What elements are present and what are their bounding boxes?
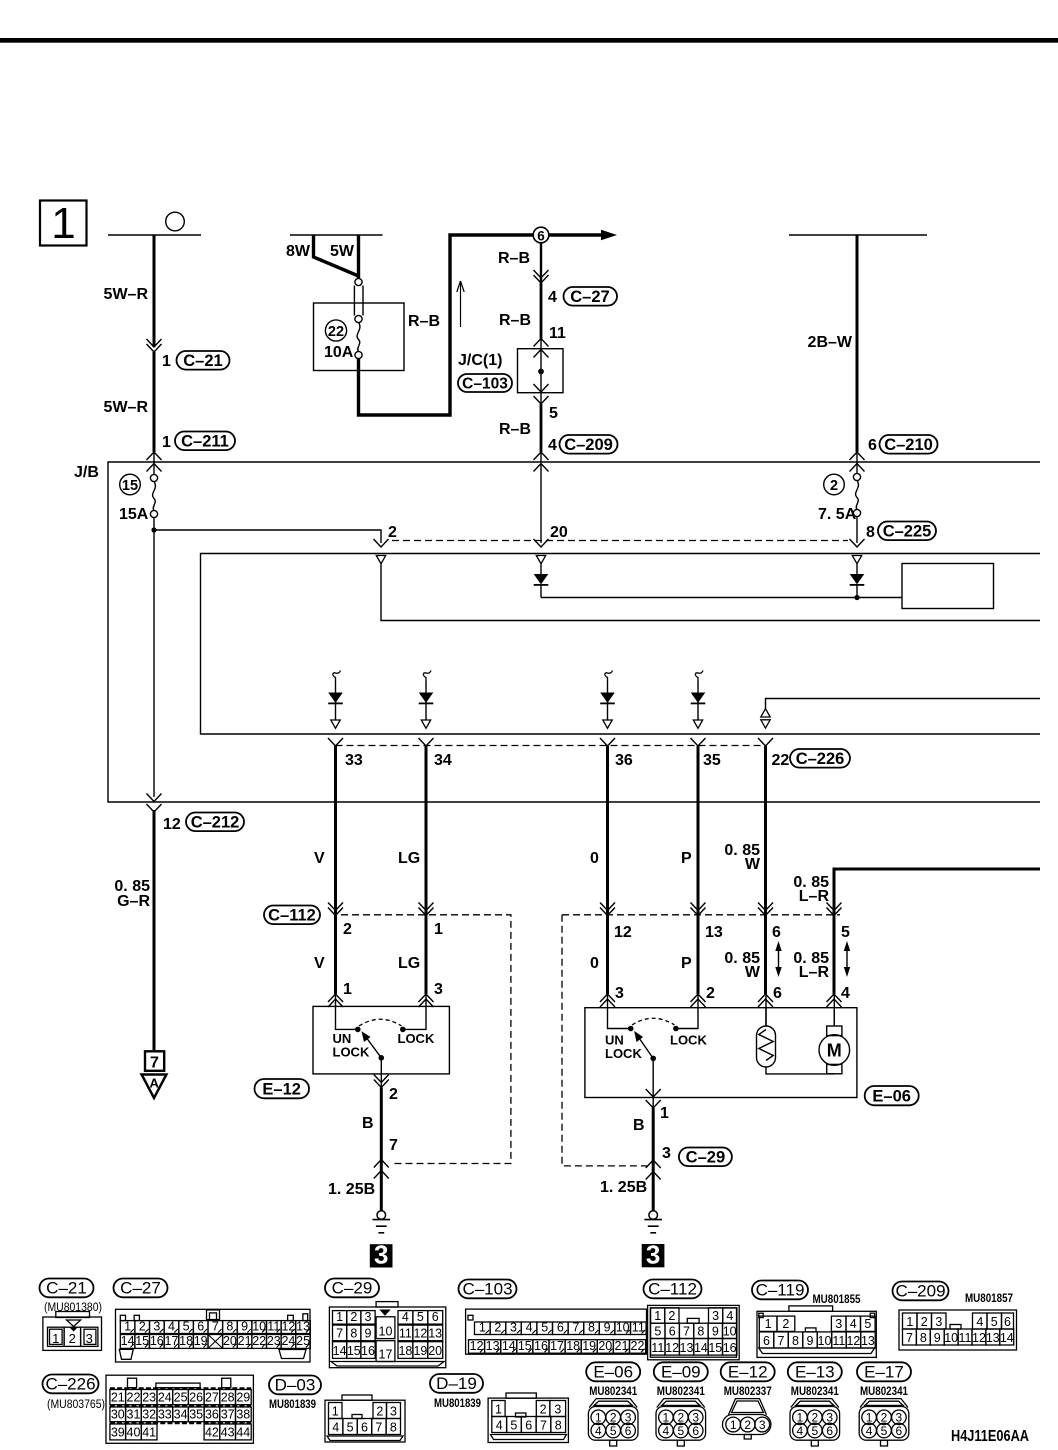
value label B xyxy=(362,1115,374,1132)
svg-text:6: 6 xyxy=(669,1324,676,1338)
pin 33 xyxy=(345,752,363,769)
svg-text:39: 39 xyxy=(111,1426,125,1440)
label UN LOCK xyxy=(333,1031,370,1060)
svg-text:12: 12 xyxy=(972,1331,986,1345)
node pin35 crossing xyxy=(691,738,706,746)
svg-text:4: 4 xyxy=(850,1317,857,1331)
wire 8W stub xyxy=(314,235,359,276)
pin 11 J/C xyxy=(549,325,566,342)
svg-text:C–21: C–21 xyxy=(46,1279,87,1298)
svg-text:6: 6 xyxy=(525,1418,532,1432)
svg-text:3: 3 xyxy=(692,1411,699,1425)
svg-text:4: 4 xyxy=(841,985,850,1002)
pin 1 C-21 xyxy=(162,353,171,370)
node E-12 entry chevrons xyxy=(328,994,434,1007)
svg-text:3: 3 xyxy=(835,1317,842,1331)
svg-text:2: 2 xyxy=(744,1418,751,1432)
svg-text:7: 7 xyxy=(150,1055,159,1072)
svg-text:E–12: E–12 xyxy=(262,1081,301,1099)
wire bus arrow right xyxy=(549,230,617,241)
svg-text:9: 9 xyxy=(365,1327,372,1341)
svg-text:16: 16 xyxy=(723,1341,737,1355)
svg-text:8: 8 xyxy=(226,1319,233,1333)
svg-text:C–27: C–27 xyxy=(570,288,609,306)
node C-212 crossing xyxy=(147,794,162,813)
svg-text:4: 4 xyxy=(526,1320,533,1334)
svg-text:2: 2 xyxy=(540,1402,547,1416)
svg-text:8: 8 xyxy=(390,1420,397,1434)
svg-text:25: 25 xyxy=(296,1334,310,1348)
svg-text:1: 1 xyxy=(124,1319,131,1333)
connector label C-209 xyxy=(560,435,618,454)
value label 0.85 W xyxy=(724,842,760,873)
svg-text:1: 1 xyxy=(660,1105,669,1122)
svg-text:12: 12 xyxy=(413,1327,427,1341)
connector C-29 dashed boundary xyxy=(562,915,840,1166)
ground left xyxy=(373,1211,391,1233)
svg-text:5: 5 xyxy=(841,924,850,941)
wire 0.85W from pin22 xyxy=(764,746,768,1026)
svg-text:5: 5 xyxy=(677,1424,684,1438)
node junction dot fuse15 xyxy=(151,527,156,532)
svg-text:7: 7 xyxy=(336,1327,343,1341)
resistor coil actuator xyxy=(757,1008,835,1074)
connector E-17 pinout xyxy=(857,1362,911,1446)
value label P xyxy=(681,850,692,867)
svg-text:2: 2 xyxy=(610,1411,617,1425)
fuse number 15 circle xyxy=(120,474,141,495)
wire 0.85 L-R from right xyxy=(834,869,1040,1026)
svg-text:1: 1 xyxy=(765,1317,772,1331)
node board triangle 2 xyxy=(536,556,545,564)
fuse 15 15A in J/B xyxy=(150,474,157,530)
diode D5 with hook xyxy=(600,671,615,729)
svg-text:2: 2 xyxy=(494,1320,501,1334)
pin 3 C-29 xyxy=(662,1145,671,1162)
actuator E-06 box xyxy=(585,1008,857,1098)
svg-text:12: 12 xyxy=(163,816,181,833)
svg-text:G–R: G–R xyxy=(117,893,150,910)
node C-21 crossing xyxy=(147,339,162,352)
value label 5W xyxy=(330,243,355,260)
svg-text:14: 14 xyxy=(694,1341,708,1355)
svg-text:1: 1 xyxy=(479,1320,486,1334)
svg-text:2: 2 xyxy=(388,524,397,541)
svg-text:0: 0 xyxy=(590,850,599,867)
pin 2 C-112 xyxy=(343,921,352,938)
svg-text:13: 13 xyxy=(986,1331,1000,1345)
svg-text:36: 36 xyxy=(615,752,633,769)
svg-text:19: 19 xyxy=(413,1344,427,1358)
diode D1 xyxy=(534,564,549,598)
svg-text:V: V xyxy=(314,850,325,867)
node J/C entry chevron xyxy=(534,339,549,347)
wire B from E-06 xyxy=(652,1098,654,1212)
svg-text:C–119: C–119 xyxy=(756,1281,805,1300)
svg-text:43: 43 xyxy=(221,1426,235,1440)
page marker 7 A xyxy=(142,1051,167,1098)
pin 2 E-06 xyxy=(706,985,715,1002)
arrow both ways L-R xyxy=(844,941,850,977)
svg-text:18: 18 xyxy=(179,1334,193,1348)
pin 5 xyxy=(549,405,558,422)
node pin3 crossing xyxy=(646,1160,661,1180)
svg-text:5: 5 xyxy=(347,1420,354,1434)
value label 10A xyxy=(324,344,354,361)
connector label C-29 xyxy=(679,1148,732,1167)
svg-text:E–09: E–09 xyxy=(661,1363,701,1382)
svg-text:3: 3 xyxy=(365,1310,372,1324)
svg-text:1: 1 xyxy=(162,434,171,451)
svg-text:5: 5 xyxy=(610,1424,617,1438)
svg-text:8: 8 xyxy=(697,1324,704,1338)
value label 15A xyxy=(119,506,149,523)
svg-text:5: 5 xyxy=(654,1324,661,1338)
svg-text:3: 3 xyxy=(554,1402,561,1416)
svg-text:C–225: C–225 xyxy=(883,523,932,541)
svg-text:15: 15 xyxy=(708,1341,722,1355)
svg-text:6: 6 xyxy=(896,1424,903,1438)
label LOCK E-06 xyxy=(670,1033,707,1048)
svg-text:P: P xyxy=(681,955,692,972)
connector C-21 pinout xyxy=(40,1279,103,1351)
svg-text:24: 24 xyxy=(281,1334,295,1348)
svg-text:R–B: R–B xyxy=(498,250,530,267)
section marker 1 xyxy=(40,199,87,248)
svg-text:4: 4 xyxy=(402,1310,409,1324)
connector E-06 pinout xyxy=(586,1362,640,1446)
svg-text:3: 3 xyxy=(510,1320,517,1334)
svg-text:MU801857: MU801857 xyxy=(965,1293,1013,1305)
svg-text:2: 2 xyxy=(811,1411,818,1425)
svg-text:15: 15 xyxy=(347,1344,361,1358)
svg-text:D–19: D–19 xyxy=(436,1374,477,1393)
svg-text:15: 15 xyxy=(135,1334,149,1348)
label J/C(1) xyxy=(458,352,502,369)
node ignition bus middle xyxy=(290,234,383,236)
svg-text:W: W xyxy=(745,964,761,981)
svg-text:2: 2 xyxy=(706,985,715,1002)
value label 0.85 L-R lower xyxy=(793,950,829,981)
svg-text:R–B: R–B xyxy=(499,421,531,438)
pin 6 C-210 xyxy=(868,437,877,454)
svg-text:1: 1 xyxy=(595,1411,602,1425)
svg-text:7. 5A: 7. 5A xyxy=(818,506,857,523)
pin 2 xyxy=(388,524,397,541)
svg-text:29: 29 xyxy=(236,1391,250,1405)
connector label C-112 xyxy=(264,906,320,925)
node pin6 C-29 xyxy=(758,903,773,916)
svg-text:MU801839: MU801839 xyxy=(269,1399,316,1411)
svg-text:E–12: E–12 xyxy=(728,1363,768,1382)
diagram code H4J11E06AA xyxy=(951,1428,1029,1445)
fuse box rect xyxy=(314,303,405,371)
svg-text:21: 21 xyxy=(238,1334,252,1348)
value label 1.25B xyxy=(328,1181,375,1198)
svg-text:C–209: C–209 xyxy=(895,1282,945,1301)
svg-text:42: 42 xyxy=(205,1426,219,1440)
svg-text:1. 25B: 1. 25B xyxy=(328,1181,375,1198)
svg-text:20: 20 xyxy=(428,1344,442,1358)
node junction dot diode bus xyxy=(854,595,859,600)
svg-text:4: 4 xyxy=(496,1418,503,1432)
svg-text:4: 4 xyxy=(332,1420,339,1434)
label J/B xyxy=(74,464,99,481)
wire from triangle 1 xyxy=(381,564,1040,621)
svg-text:8: 8 xyxy=(920,1331,927,1345)
svg-text:3: 3 xyxy=(646,1239,660,1269)
svg-text:5: 5 xyxy=(991,1315,998,1329)
svg-text:14: 14 xyxy=(121,1334,135,1348)
pin 8 xyxy=(866,524,875,541)
svg-text:1: 1 xyxy=(332,1404,339,1418)
svg-text:2B–W: 2B–W xyxy=(808,334,853,351)
value label O xyxy=(590,850,599,867)
svg-text:6: 6 xyxy=(625,1424,632,1438)
svg-text:C–27: C–27 xyxy=(120,1279,161,1298)
svg-text:7: 7 xyxy=(212,1319,219,1333)
svg-text:1: 1 xyxy=(906,1315,913,1329)
svg-text:20: 20 xyxy=(550,524,568,541)
svg-text:3: 3 xyxy=(390,1404,397,1418)
svg-text:5: 5 xyxy=(864,1317,871,1331)
svg-text:34: 34 xyxy=(174,1408,188,1422)
svg-text:7: 7 xyxy=(906,1331,913,1345)
svg-text:25: 25 xyxy=(174,1391,188,1405)
svg-text:E–17: E–17 xyxy=(864,1363,904,1382)
svg-text:3: 3 xyxy=(434,981,443,998)
node board triangle 3 xyxy=(852,556,861,564)
svg-text:36: 36 xyxy=(205,1408,219,1422)
pin 1 E-12 xyxy=(343,981,352,998)
pin 1 C-112 xyxy=(434,921,443,938)
svg-text:D–03: D–03 xyxy=(275,1376,316,1395)
node board triangle 1 xyxy=(376,556,385,564)
svg-text:LOCK: LOCK xyxy=(605,1046,642,1061)
svg-text:34: 34 xyxy=(434,752,452,769)
wire 0.85 G-R xyxy=(153,810,156,1050)
svg-text:LG: LG xyxy=(398,850,420,867)
svg-text:7: 7 xyxy=(572,1320,579,1334)
diode D4 with hook xyxy=(419,671,434,729)
svg-text:15A: 15A xyxy=(119,506,149,523)
svg-text:1: 1 xyxy=(495,1402,502,1416)
svg-text:10: 10 xyxy=(818,1334,832,1348)
svg-text:14: 14 xyxy=(333,1344,347,1358)
svg-text:6: 6 xyxy=(1004,1315,1011,1329)
svg-text:10: 10 xyxy=(252,1319,266,1333)
svg-text:5: 5 xyxy=(541,1320,548,1334)
connector E-12 pinout xyxy=(721,1362,775,1439)
svg-text:9: 9 xyxy=(934,1331,941,1345)
svg-text:(MU801380): (MU801380) xyxy=(44,1302,102,1314)
svg-text:2: 2 xyxy=(389,1086,398,1103)
svg-text:M: M xyxy=(827,1041,842,1061)
svg-text:7: 7 xyxy=(540,1418,547,1432)
connector label C-103 xyxy=(458,374,512,393)
diode D6 with hook xyxy=(691,671,706,729)
connector label C-21 xyxy=(177,351,230,370)
value label 8W xyxy=(286,243,311,260)
svg-text:10: 10 xyxy=(723,1324,737,1338)
svg-text:7: 7 xyxy=(389,1137,398,1154)
svg-text:9: 9 xyxy=(604,1320,611,1334)
switch E-12 box xyxy=(313,1006,449,1074)
svg-text:2: 2 xyxy=(830,478,838,494)
svg-text:12: 12 xyxy=(846,1334,860,1348)
pin 3 E-06 xyxy=(615,985,624,1002)
svg-text:38: 38 xyxy=(236,1408,250,1422)
node E-06 exit chevron xyxy=(646,1089,661,1108)
svg-text:C–226: C–226 xyxy=(796,750,845,768)
svg-text:23: 23 xyxy=(267,1334,281,1348)
diode D2 xyxy=(850,564,865,598)
svg-text:C–112: C–112 xyxy=(268,907,316,925)
wire 2B-W down xyxy=(856,235,859,474)
svg-text:C–21: C–21 xyxy=(183,352,222,370)
pin 4 C-27 xyxy=(548,289,557,306)
value label 0.85 G-R xyxy=(114,878,150,910)
value label 7.5A xyxy=(818,506,857,523)
svg-text:33: 33 xyxy=(158,1408,172,1422)
svg-text:6: 6 xyxy=(557,1320,564,1334)
wire B from E-12 xyxy=(380,1074,382,1211)
svg-text:2: 2 xyxy=(350,1310,357,1324)
svg-text:1: 1 xyxy=(797,1411,804,1425)
svg-text:13: 13 xyxy=(861,1334,875,1348)
fuse 2 7.5A in J/B xyxy=(850,473,865,547)
svg-text:17: 17 xyxy=(379,1347,393,1361)
svg-text:(MU803765): (MU803765) xyxy=(47,1399,105,1411)
switch E-12 contacts xyxy=(336,1006,427,1032)
node C-210 crossing xyxy=(850,452,865,472)
svg-text:B: B xyxy=(362,1115,374,1132)
svg-text:1: 1 xyxy=(51,199,75,248)
svg-text:11: 11 xyxy=(399,1327,412,1341)
svg-text:10A: 10A xyxy=(324,344,354,361)
svg-text:0: 0 xyxy=(590,955,599,972)
value label LG lower xyxy=(398,955,420,972)
wire fuse15 to C-212 inside J/B xyxy=(153,530,155,797)
node up/down triangles pin22 xyxy=(761,699,1040,729)
label LOCK xyxy=(398,1031,435,1046)
svg-text:P: P xyxy=(681,850,692,867)
svg-text:4: 4 xyxy=(548,437,557,454)
pin 1 C-211 xyxy=(162,434,171,451)
svg-text:22: 22 xyxy=(328,324,344,340)
svg-text:6: 6 xyxy=(826,1424,833,1438)
svg-text:2: 2 xyxy=(376,1404,383,1418)
svg-text:4: 4 xyxy=(595,1424,602,1438)
node bus right xyxy=(789,234,927,236)
svg-text:5: 5 xyxy=(510,1418,517,1432)
svg-text:E–06: E–06 xyxy=(872,1088,911,1106)
svg-text:MU802337: MU802337 xyxy=(724,1386,772,1398)
svg-text:33: 33 xyxy=(345,752,363,769)
label UN LOCK E-06 xyxy=(605,1033,642,1062)
svg-text:13: 13 xyxy=(428,1327,442,1341)
diode D3 with hook xyxy=(328,671,343,729)
svg-text:23: 23 xyxy=(142,1391,156,1405)
arrow both ways W xyxy=(775,941,781,977)
wire into J/B left xyxy=(153,452,155,475)
svg-text:13: 13 xyxy=(705,924,723,941)
node pin33 crossing xyxy=(328,738,343,746)
svg-text:4: 4 xyxy=(663,1424,670,1438)
pin 3 E-12 xyxy=(434,981,443,998)
pin 36 xyxy=(615,752,633,769)
connector E-09 pinout xyxy=(654,1362,708,1446)
ETACS inner unit box xyxy=(201,554,1041,735)
svg-text:8: 8 xyxy=(350,1327,357,1341)
svg-text:E–06: E–06 xyxy=(593,1363,633,1382)
svg-text:6: 6 xyxy=(868,437,877,454)
svg-text:32: 32 xyxy=(142,1408,156,1422)
connector D-03 pinout xyxy=(269,1376,405,1443)
svg-text:5: 5 xyxy=(811,1424,818,1438)
node pin36 crossing xyxy=(600,738,615,746)
node pin22 crossing xyxy=(758,738,773,746)
connector C-112 dashed boundary xyxy=(341,915,511,1164)
svg-text:3: 3 xyxy=(759,1418,766,1432)
svg-text:7: 7 xyxy=(375,1420,382,1434)
connector E-13 pinout xyxy=(788,1362,842,1446)
junction block J/C(1) box xyxy=(518,339,564,405)
svg-text:35: 35 xyxy=(703,752,721,769)
pin 2 E-12 xyxy=(389,1086,398,1103)
node C-211 crossing xyxy=(147,452,162,472)
svg-text:C–209: C–209 xyxy=(564,436,613,454)
motor M E-06 xyxy=(819,1008,850,1074)
svg-text:C–112: C–112 xyxy=(648,1280,697,1299)
svg-text:13: 13 xyxy=(296,1319,310,1333)
svg-text:5W–R: 5W–R xyxy=(104,286,149,303)
node pin2 C-112 xyxy=(328,903,343,916)
svg-text:C–103: C–103 xyxy=(462,1280,512,1299)
svg-text:2: 2 xyxy=(677,1411,684,1425)
node C-209 crossing xyxy=(534,452,549,472)
pin 34 xyxy=(434,752,452,769)
svg-text:6: 6 xyxy=(361,1420,368,1434)
connector label E-06 xyxy=(865,1086,919,1106)
svg-text:2: 2 xyxy=(139,1319,146,1333)
connector C-103 pinout xyxy=(459,1280,647,1355)
svg-text:6: 6 xyxy=(537,229,545,244)
svg-text:1. 25B: 1. 25B xyxy=(600,1179,647,1196)
svg-text:V: V xyxy=(314,955,325,972)
connector C-226 pinout xyxy=(43,1375,254,1444)
svg-text:22: 22 xyxy=(252,1334,266,1348)
svg-text:12: 12 xyxy=(665,1341,679,1355)
svg-text:5: 5 xyxy=(881,1424,888,1438)
svg-text:6: 6 xyxy=(772,924,781,941)
svg-text:6: 6 xyxy=(432,1310,439,1324)
connector D-19 pinout xyxy=(430,1374,568,1443)
svg-text:MU802341: MU802341 xyxy=(791,1386,840,1398)
pin 7 C-29 xyxy=(389,1137,398,1154)
wire 5W-R from C-21 to C-211 xyxy=(153,352,156,452)
svg-text:22: 22 xyxy=(772,752,790,769)
svg-text:LOCK: LOCK xyxy=(670,1033,707,1048)
svg-text:1: 1 xyxy=(866,1411,873,1425)
svg-text:2: 2 xyxy=(881,1411,888,1425)
svg-text:8: 8 xyxy=(792,1334,799,1348)
pin 35 xyxy=(703,752,721,769)
svg-text:17: 17 xyxy=(165,1334,179,1348)
svg-text:3: 3 xyxy=(662,1145,671,1162)
svg-text:L–R: L–R xyxy=(799,964,830,981)
fuse number 22 xyxy=(325,320,346,341)
